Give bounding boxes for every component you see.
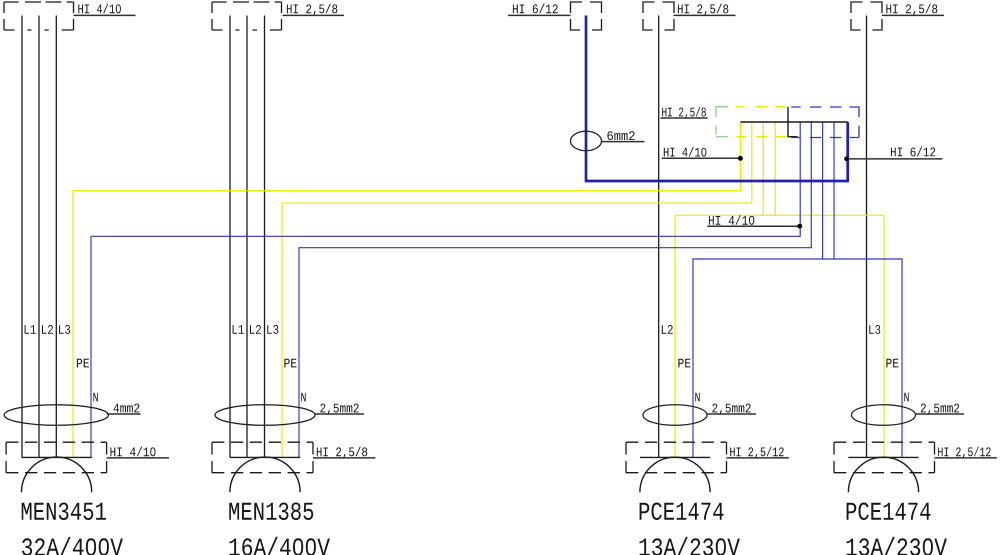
tag L3 PCE right [869, 325, 880, 334]
tag L1 MEN1385 [233, 325, 244, 334]
tag PE PCE left [678, 359, 690, 368]
terminal box X1 (supply HI 4/10 for MEN3451) [4, 2, 74, 30]
wire L3 PCE1474 right [866, 16, 868, 458]
label HI 2,5/8 at box X5 [882, 14, 944, 16]
rating 32A/400V [22, 537, 123, 555]
rating 13A/230V right [847, 537, 947, 555]
cable marker 2,5mm2 MEN1385 [215, 405, 315, 426]
socket PCE1474 left dashed box [626, 441, 727, 443]
tag PE MEN1385 [284, 359, 296, 368]
wire L2 PCE1474 left [658, 16, 660, 458]
label HI 4/10 at MEN3451 socket [107, 457, 169, 459]
wire L2 MEN1385 [246, 16, 248, 458]
socket PCE1474 right plug arc [848, 457, 918, 492]
junction box PE (green/yellow dashed) [716, 107, 728, 117]
tag L3 MEN3451 [59, 325, 70, 334]
label HI 2,5/12 at PCE left socket [727, 457, 789, 459]
wire N riser F [833, 122, 835, 259]
socket MEN3451 dashed box [6, 441, 107, 443]
tag L2 PCE left [662, 325, 673, 334]
wire PE MEN1385 [282, 122, 752, 457]
name MEN1385 [229, 503, 313, 521]
wire N bus PCE [693, 259, 902, 457]
junction bus bar (black) [740, 121, 847, 123]
label HI 4/10 at N wire [707, 225, 800, 227]
wire PE bus PCE [675, 215, 884, 457]
rating 13A/230V left [640, 537, 740, 555]
tag L3 MEN1385 [267, 325, 278, 334]
socket PCE1474 left face line [640, 456, 710, 458]
tag N PCE left [695, 393, 699, 402]
socket MEN1385 plug arc [230, 457, 300, 492]
label HI 2,5/8 at MEN1385 socket [313, 457, 375, 459]
name PCE1474 left [640, 503, 724, 521]
label HI 2,5/8 at junction box PE [661, 117, 708, 119]
label HI 2,5/8 at box X2 [283, 14, 345, 16]
socket MEN1385 face line [230, 456, 300, 458]
socket PCE1474 right face line [848, 456, 918, 458]
wire L3 MEN3451 [55, 16, 57, 458]
socket PCE1474 left plug arc [640, 457, 710, 492]
tag N MEN3451 [93, 393, 97, 402]
wire L3 MEN1385 [264, 16, 266, 458]
wire PE riser D [774, 122, 776, 215]
terminal box X5 (supply HI 2,5/8 for PCE right) [851, 2, 882, 30]
tag N PCE right [904, 393, 908, 402]
name PCE1474 right [847, 503, 931, 521]
cable marker 6mm2 on feeder [571, 131, 602, 150]
label HI 6/12 at box X3 [508, 14, 571, 16]
socket MEN1385 dashed box [212, 441, 313, 443]
tag L1 MEN3451 [25, 325, 36, 334]
tag PE MEN3451 [77, 359, 89, 368]
socket PCE1474 right dashed box [834, 441, 935, 443]
label HI 2,5/12 at PCE right socket [935, 457, 997, 459]
terminal box X3 (supply HI 6/12 feeder) [571, 2, 602, 30]
label HI 6/12 at feeder wire [847, 158, 943, 160]
wire N MEN1385 [299, 122, 811, 457]
wire L1 MEN3451 [21, 16, 23, 458]
wire PE MEN3451 [73, 122, 740, 457]
rating 16A/400V [230, 537, 330, 555]
wire N MEN3451 [91, 122, 800, 457]
cable marker 4mm2 MEN3451 [4, 405, 108, 426]
junction cable entry elbow (black) [788, 107, 798, 137]
socket MEN3451 face line [22, 456, 92, 458]
tag L2 MEN3451 [42, 325, 53, 334]
terminal box X2 (supply HI 2,5/8 for MEN1385) [212, 2, 282, 30]
label HI 2,5/8 at box X4 [674, 14, 736, 16]
tag N MEN1385 [301, 393, 305, 402]
wire PE riser C [762, 122, 764, 215]
wire L2 MEN3451 [38, 16, 40, 458]
junction box N (blue dashed) [791, 107, 859, 138]
wire L1 MEN1385 [229, 16, 231, 458]
tag PE PCE right [886, 359, 898, 368]
name MEN3451 [22, 503, 106, 521]
cable marker 2,5mm2 PCE left [643, 405, 707, 426]
label HI 4/10 at box X1 [74, 14, 136, 16]
socket MEN3451 plug arc [22, 457, 92, 492]
wire main feeder HI 6/12 (thick blue) [586, 16, 848, 182]
wire N riser E [822, 122, 824, 259]
label HI 4/10 at junction (PE wire) [662, 157, 740, 159]
tag L2 MEN1385 [250, 325, 261, 334]
cable marker 2,5mm2 PCE right [852, 405, 916, 426]
terminal box X4 (supply HI 2,5/8 for PCE left) [643, 2, 674, 30]
